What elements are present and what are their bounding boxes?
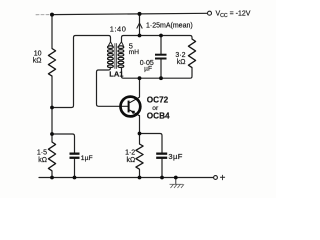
svg-text:OCB4: OCB4 xyxy=(147,112,170,121)
svg-text:kΩ: kΩ xyxy=(38,157,47,164)
svg-text:3µF: 3µF xyxy=(168,152,182,161)
svg-text:kΩ: kΩ xyxy=(177,59,186,66)
svg-text:mH: mH xyxy=(129,49,139,56)
svg-text:kΩ: kΩ xyxy=(126,157,135,164)
svg-text:1·2: 1·2 xyxy=(125,150,135,157)
svg-text:VCC = -12V: VCC = -12V xyxy=(216,11,251,20)
svg-text:OC72: OC72 xyxy=(147,96,169,105)
svg-text:1·5: 1·5 xyxy=(37,149,47,156)
svg-text:1·25mA(mean): 1·25mA(mean) xyxy=(146,22,193,29)
svg-text:+: + xyxy=(220,173,226,184)
svg-text:LA1: LA1 xyxy=(109,69,123,78)
svg-text:µF: µF xyxy=(144,66,152,73)
svg-text:10: 10 xyxy=(34,50,42,57)
svg-text:1:40: 1:40 xyxy=(110,25,127,34)
svg-text:kΩ: kΩ xyxy=(33,57,42,64)
svg-text:1µF: 1µF xyxy=(81,155,93,162)
